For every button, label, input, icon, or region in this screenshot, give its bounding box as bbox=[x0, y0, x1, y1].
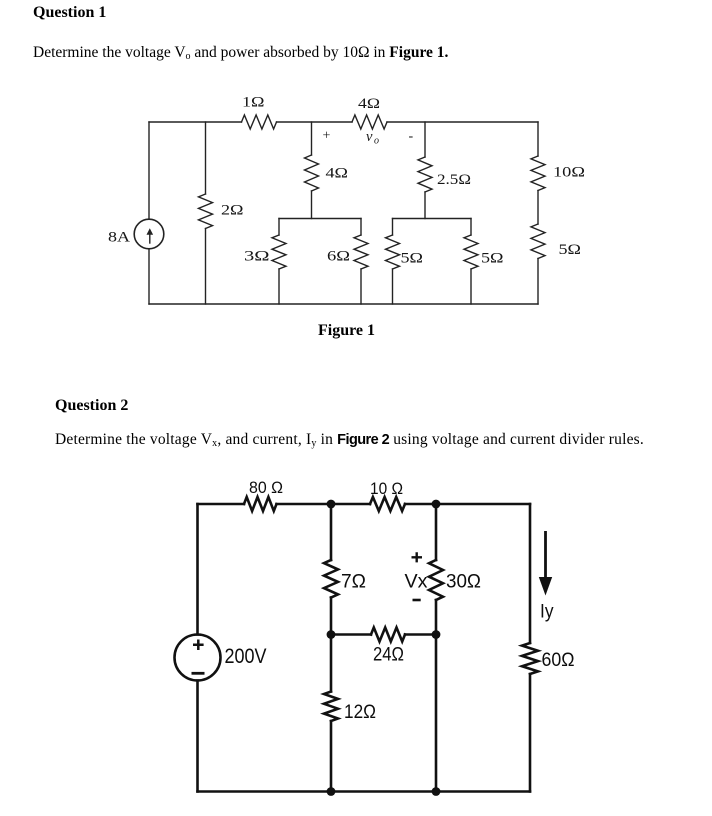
resistor R 4ohm vertical branch bbox=[305, 122, 349, 219]
wire: left rail bottom (200V source to bottom rail) bbox=[196, 681, 199, 792]
resistor R 7ohm (mid branch upper) bbox=[324, 504, 366, 635]
label: minus sign of Vo bbox=[409, 129, 414, 144]
resistor R 6ohm bbox=[327, 219, 368, 305]
label: plus sign of Vx bbox=[412, 552, 423, 562]
svg-text:200V: 200V bbox=[225, 645, 267, 668]
label: Vo (voltage across 4ohm horizontal) bbox=[366, 129, 379, 147]
wire: top rail right segment bbox=[436, 503, 530, 506]
resistor R 1ohm (top rail) bbox=[242, 95, 277, 130]
svg-text:Vx: Vx bbox=[405, 571, 428, 593]
resistor R 2.5ohm vertical branch bbox=[418, 122, 471, 219]
svg-text:80 Ω: 80 Ω bbox=[249, 478, 283, 497]
wire: top rail between 80ohm and node A bbox=[277, 503, 332, 506]
current source 8A (circle with upward arrow) bbox=[108, 219, 164, 249]
wire: figure1 top rail left segment bbox=[149, 121, 242, 123]
label: Vx voltage bbox=[405, 571, 428, 593]
node: junction dot bottom right-mid bbox=[432, 787, 441, 796]
resistor R 5ohm (left of pair) bbox=[386, 219, 424, 305]
resistor R 60ohm (right rail) bbox=[522, 504, 575, 792]
voltage source 200V bbox=[175, 635, 267, 681]
svg-text:24Ω: 24Ω bbox=[373, 644, 404, 666]
caption Figure 1 bbox=[318, 322, 375, 340]
node: junction dot bottom mid bbox=[327, 787, 336, 796]
wire: top rail between 1ohm and 4ohm bbox=[277, 121, 353, 123]
svg-text:60Ω: 60Ω bbox=[542, 649, 575, 671]
resistor R 5ohm (right rail bottom) bbox=[531, 224, 581, 304]
problem statement 2 bbox=[55, 431, 644, 449]
resistor R 2ohm branch bbox=[199, 122, 244, 304]
resistor R 5ohm (right of pair) bbox=[464, 219, 504, 305]
wire: figure2 top rail left segment bbox=[198, 503, 245, 506]
svg-text:10 Ω: 10 Ω bbox=[370, 479, 403, 498]
svg-text:Iy: Iy bbox=[540, 602, 554, 623]
wire: left rail top (top rail to 8A source) bbox=[148, 122, 150, 219]
wire: top rail between 10ohm and node B bbox=[405, 503, 436, 506]
wire: bar joining 3ohm and 6ohm tops bbox=[279, 218, 361, 220]
wire: bottom rail bbox=[198, 790, 531, 793]
resistor R 10ohm (right rail top) bbox=[531, 122, 585, 191]
svg-text:30Ω: 30Ω bbox=[446, 571, 481, 593]
wire: branch B lower (node D to bottom rail) bbox=[435, 635, 438, 792]
resistor R 4ohm (top rail horizontal) bbox=[352, 96, 387, 129]
label: plus sign of Vo bbox=[323, 129, 331, 144]
node A (junction dot top-mid) bbox=[327, 500, 336, 509]
node C (junction dot mid: 7ohm/24ohm/12ohm) bbox=[327, 630, 336, 639]
svg-text:7Ω: 7Ω bbox=[341, 571, 366, 593]
node D (junction dot: 30ohm/24ohm) bbox=[432, 630, 441, 639]
wire: left rail bottom (8A source to bottom rail) bbox=[148, 249, 150, 304]
heading Question 2 bbox=[55, 397, 128, 415]
problem statement 1 bbox=[33, 44, 448, 62]
wire: bottom rail bbox=[149, 303, 538, 305]
heading Question 1 bbox=[33, 4, 106, 22]
resistor R 24ohm (between node C and node D) bbox=[331, 628, 436, 666]
resistor R 3ohm bbox=[244, 219, 286, 305]
resistor R 10ohm (top rail) bbox=[370, 479, 405, 511]
resistor R 30ohm (branch B upper) bbox=[429, 504, 481, 635]
wire: right rail between 10ohm and 5ohm bbox=[537, 191, 539, 225]
svg-text:12Ω: 12Ω bbox=[344, 701, 376, 723]
wire: top rail right segment to right rail bbox=[387, 121, 538, 123]
wire: left rail top (to 200V source) bbox=[196, 504, 199, 635]
wire: top rail between node A and 10ohm bbox=[331, 503, 370, 506]
wire: bar joining the two 5ohm tops bbox=[393, 218, 472, 220]
resistor R 12ohm (mid branch lower) bbox=[324, 635, 376, 792]
node B (junction dot top-right-mid) bbox=[432, 500, 441, 509]
current arrow Iy bbox=[539, 531, 554, 623]
label: minus sign of Vx bbox=[413, 599, 421, 602]
resistor R 80ohm (top rail) bbox=[244, 478, 283, 511]
